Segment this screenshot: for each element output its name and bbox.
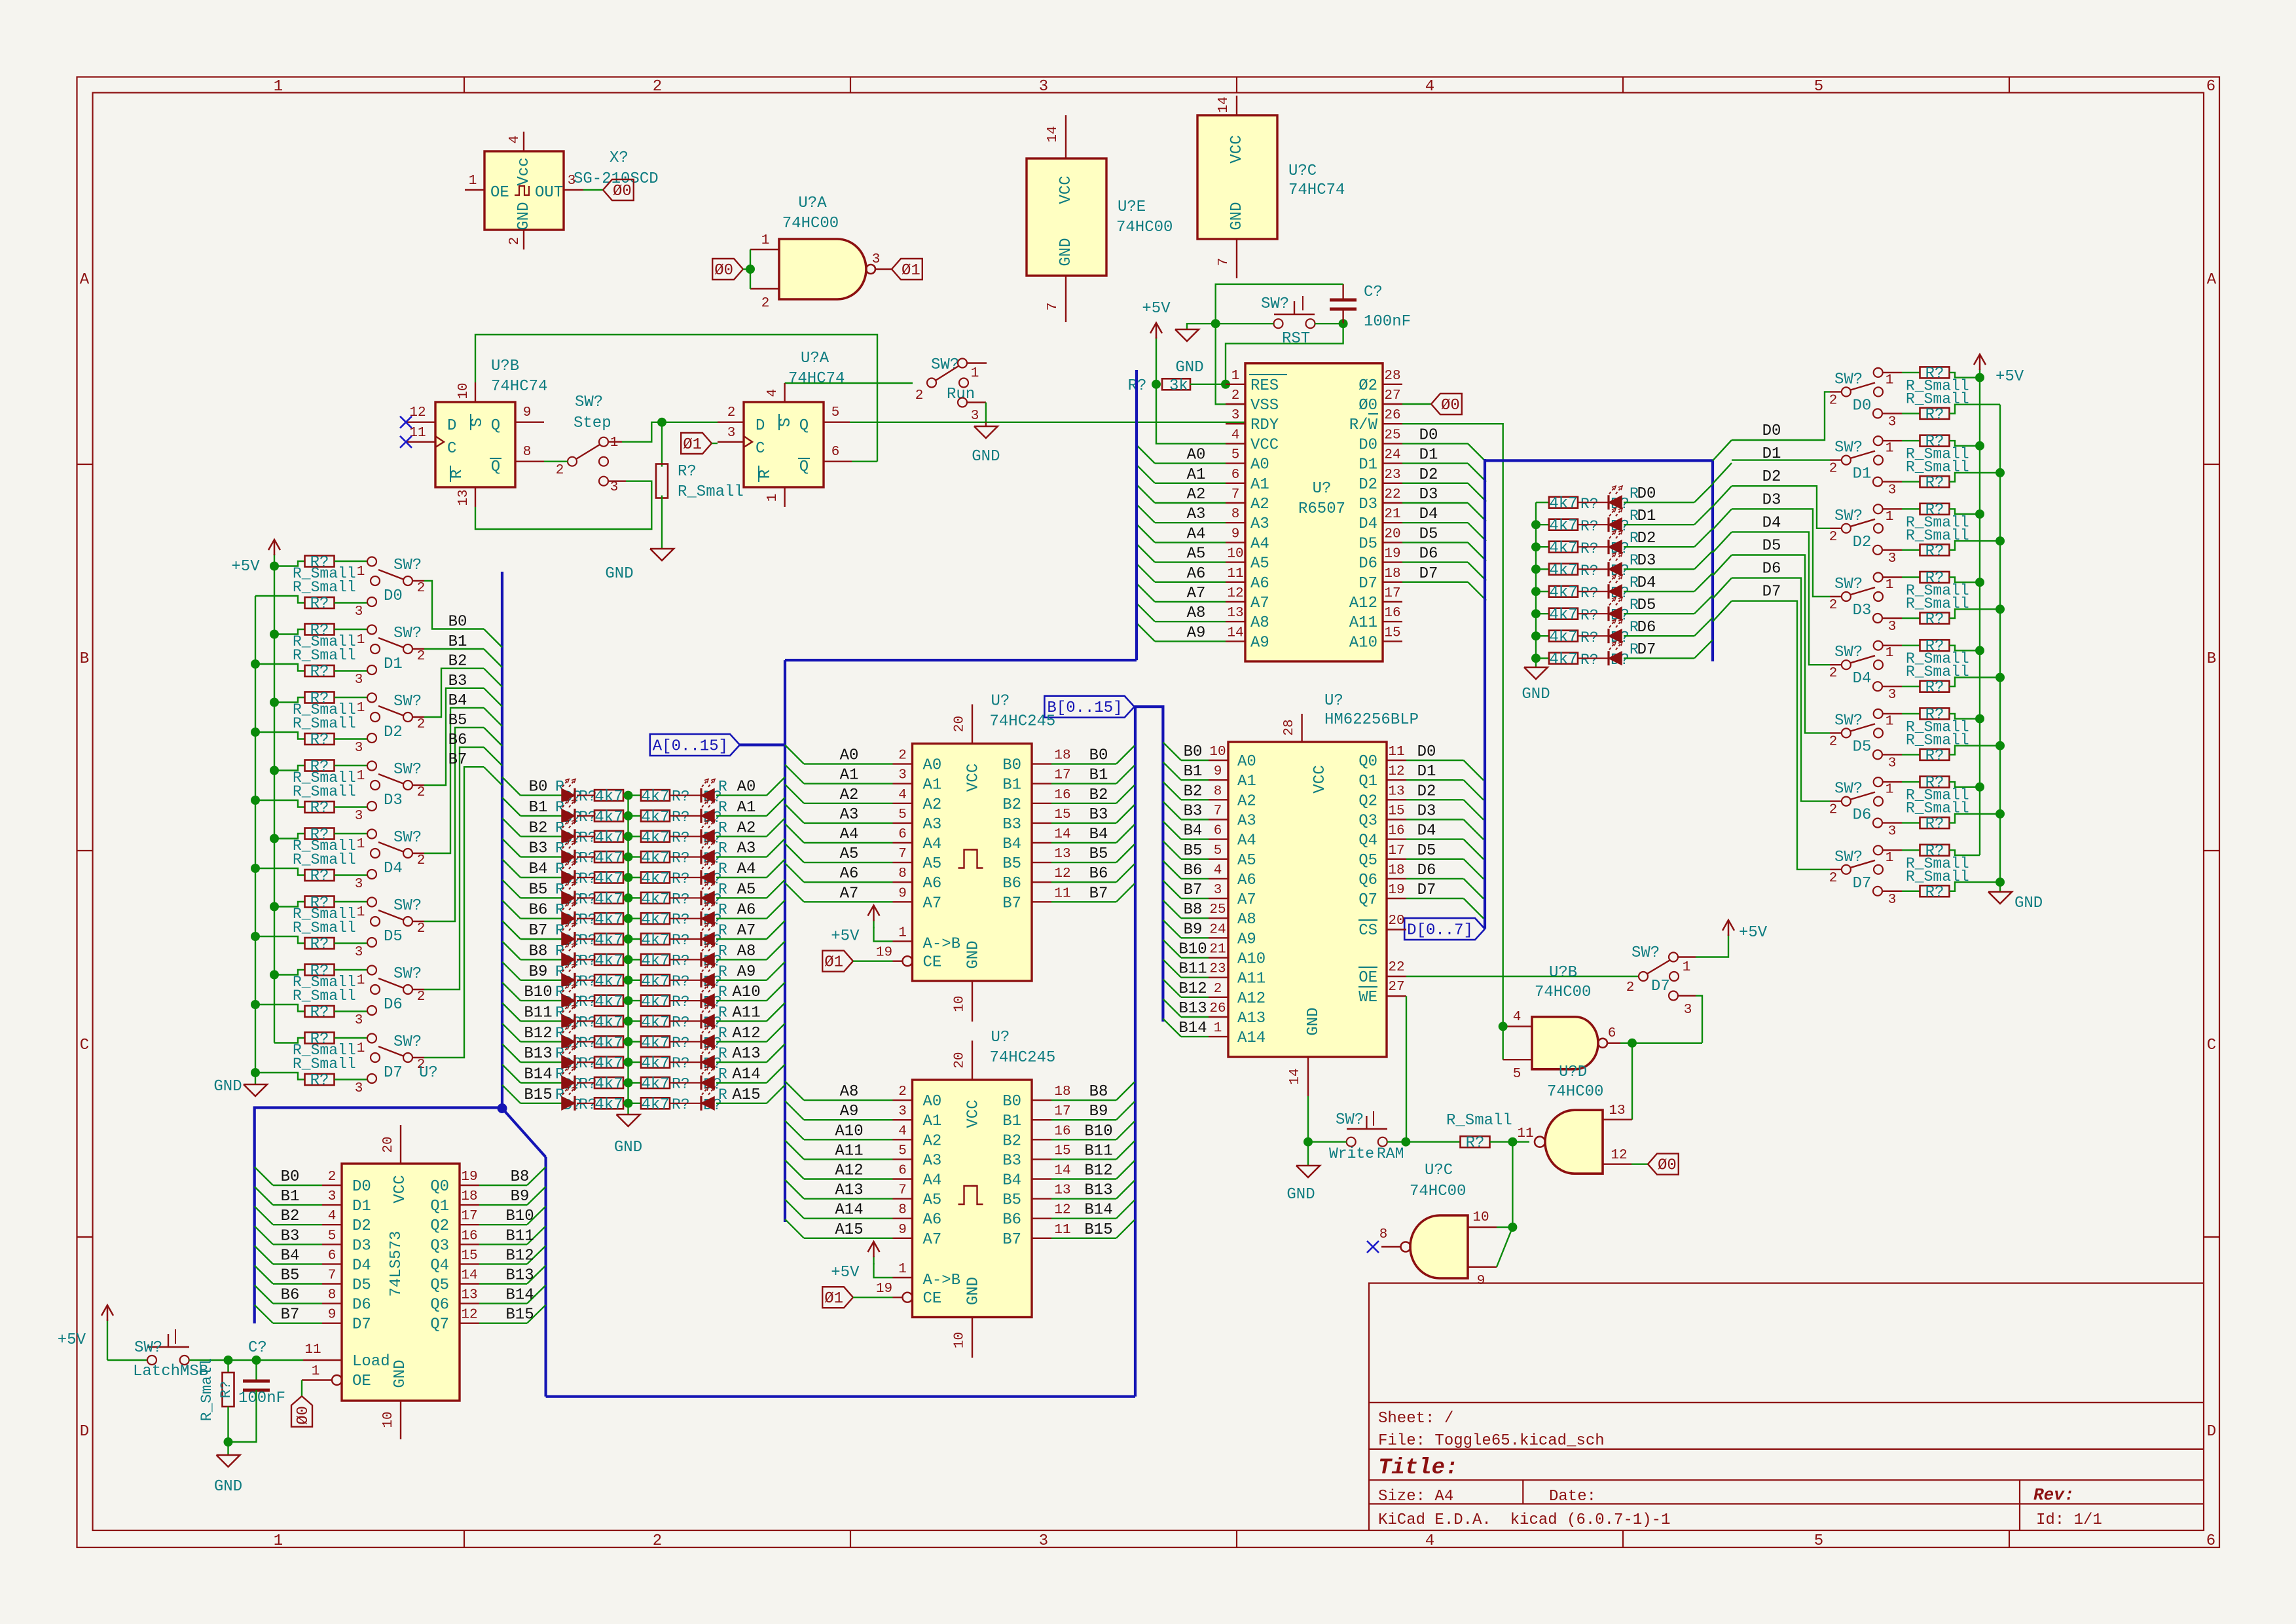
svg-text:A2: A2 [1250,496,1269,513]
svg-text:SW?: SW? [1834,644,1863,661]
74HC245 upper pin 16 B2 output [1032,803,1051,804]
svg-text:20: 20 [953,716,968,732]
svg-text:R?: R? [310,936,329,953]
wire feedback to Run switch common [877,382,913,384]
svg-text:R_Small: R_Small [293,783,356,800]
bus entry B1 left bank [484,649,502,667]
CPU pin 14 A9 [1226,640,1245,642]
svg-text:D2: D2 [1762,468,1781,486]
svg-text:R?: R? [1925,611,1944,629]
bus entry B0 left bank [484,629,502,648]
ladder row 5 resistor R? 4k7 left [577,897,594,898]
wire D2 from CPU pin 23 to D-bus [1402,483,1468,484]
CPU pin 15 A10 [1383,640,1402,642]
latch pin 16 Q3 output [460,1244,479,1245]
svg-text:D1: D1 [352,1198,371,1215]
svg-text:U?B: U?B [1549,964,1577,982]
74HC245 lower pin 3 A9 input [893,1119,913,1120]
right D3 resistor R? R_Small (pin1) [1883,576,1902,578]
CPU pin 9 A4 [1226,542,1245,543]
right D1 resistor R? R_Small (pin1) [1883,440,1902,441]
svg-text:74HC245: 74HC245 [990,713,1056,731]
svg-text:3: 3 [872,252,881,267]
svg-text:D3: D3 [1419,486,1438,504]
U?A-FF pin 2 D [718,422,744,423]
74HC245 lower wire+entry A8 [785,1081,804,1100]
svg-text:Q6: Q6 [430,1297,449,1314]
bus entry + wire A3 to CPU pin 8 [1137,504,1155,523]
svg-text:B7: B7 [1089,885,1108,902]
right D7 resistor R? R_Small (pin1) [1883,849,1902,851]
wire cap bottom to junction [1342,309,1343,323]
74HC245 upper pin 15 B3 output [1032,822,1051,824]
wire D5 from CPU pin 20 to D-bus [1402,542,1468,543]
svg-text:GND: GND [965,940,983,969]
svg-text:A5: A5 [1187,545,1206,563]
svg-text:B5: B5 [1002,1192,1021,1209]
latch pin 10 GND bottom [400,1401,401,1439]
svg-text:D5: D5 [1853,738,1872,756]
svg-text:6: 6 [2206,78,2215,96]
RAM pin 27 WE-bar [1387,995,1406,997]
svg-text:KiCad E.D.A. kicad (6.0.7-1)-: KiCad E.D.A. kicad (6.0.7-1)-1 [1378,1511,1670,1529]
RD5 row diode D? [1578,613,1609,614]
ladder row 5: bus entry B5 [502,879,520,898]
wire gnd junction to Write switch [1308,1141,1347,1142]
CPU pin 19 D6 [1383,561,1402,563]
svg-text:D3: D3 [1853,602,1872,619]
svg-text:R: R [718,881,727,898]
svg-text:Q7: Q7 [1358,891,1377,909]
svg-text:R?: R? [1925,706,1944,724]
svg-text:A10: A10 [1237,951,1266,969]
svg-text:3: 3 [1684,1003,1692,1018]
svg-text:A4: A4 [1237,832,1256,850]
svg-text:A8: A8 [737,942,756,960]
svg-text:2: 2 [653,78,662,96]
74HC245 lower pin 2 A8 input [893,1099,913,1101]
svg-text:A5: A5 [1237,852,1256,870]
RD5 wire and bus entry [1624,613,1694,614]
svg-text:B12: B12 [1084,1162,1112,1180]
svg-text:23: 23 [1209,962,1226,977]
svg-text:12: 12 [1611,1148,1627,1163]
svg-text:2: 2 [328,1170,337,1185]
bus label B[0..15] [1044,696,1134,718]
ladder row 3 diode D? right [670,856,701,857]
svg-text:B0: B0 [1002,1093,1021,1111]
ladder row 5 wire A side [716,897,767,898]
svg-text:R?: R? [672,1014,690,1031]
RAM pin 7 A3 address input [1209,819,1228,820]
right D7 resistor R? R_Small (pin3) [1882,891,1902,892]
svg-text:12: 12 [1388,764,1404,779]
svg-text:Q2: Q2 [1358,792,1377,810]
RAM pin 2 A12 address input [1209,997,1228,998]
ladder row 14 resistor R? 4k7 right [641,1077,670,1088]
svg-text:9: 9 [898,886,907,901]
svg-text:R?: R? [310,595,329,613]
svg-text:3: 3 [971,409,979,424]
74HC245 upper wire+entry B1 [1051,783,1116,784]
U?C74 pin 14 VCC stub [1236,96,1237,115]
svg-text:4k7: 4k7 [594,891,623,908]
svg-text:16: 16 [1384,606,1400,621]
wire U?C pin9 diagonal to input node [1497,1227,1512,1267]
svg-text:A8: A8 [840,1083,859,1101]
svg-text:Q2: Q2 [430,1217,449,1235]
ladder row 4 resistor R? 4k7 right [641,872,670,883]
svg-text:A2: A2 [840,786,859,804]
svg-text:19: 19 [1388,883,1404,898]
RAM pin 5 A5 address input [1209,858,1228,860]
svg-text:7: 7 [1214,804,1222,819]
svg-text:B13: B13 [524,1045,552,1063]
svg-text:4k7: 4k7 [641,932,669,950]
svg-text:Ø2: Ø2 [1358,377,1377,395]
RAM wire+entry D3 to D-bus [1406,819,1464,820]
junction U?B output [1628,1039,1637,1048]
svg-text:SW?: SW? [1336,1111,1364,1129]
svg-text:D0: D0 [1637,485,1656,503]
svg-text:8: 8 [1214,784,1222,799]
svg-text:2: 2 [417,921,426,936]
NAND gate U?A 74HC00 [779,239,866,299]
svg-text:A2: A2 [923,1132,942,1150]
switch SW? left bank D5 [335,901,368,902]
RAM pin 6 A4 address input [1209,838,1228,840]
ladder row 1 junction [623,815,642,817]
svg-text:1: 1 [1683,960,1691,975]
svg-text:1: 1 [274,1532,283,1550]
svg-text:1: 1 [357,564,365,580]
svg-text:A8: A8 [1187,604,1206,622]
74HC245 lower pin 20 VCC [972,1041,973,1080]
buffer U? 74HC245 upper body [913,744,1032,982]
ladder row 5 bus entry A5 [767,879,785,898]
svg-text:B12: B12 [524,1025,552,1043]
svg-text:4: 4 [898,788,907,803]
svg-text:3: 3 [568,174,576,189]
ladder row 8 wire A side [716,959,767,960]
bus B[0..15] RAM-side vertical [1135,707,1163,1022]
svg-text:A7: A7 [1237,891,1256,909]
svg-text:5: 5 [1214,843,1222,858]
svg-text:D7: D7 [1853,875,1872,893]
oscillator X1 SG-210SCD [484,151,564,230]
wire D6 from CPU pin 19 to D-bus [1402,561,1468,563]
74HC245 lower pin 7 A13 input [893,1198,913,1199]
svg-text:B5: B5 [1089,845,1108,863]
svg-text:U?C: U?C [1288,162,1317,180]
svg-text:A10: A10 [732,984,760,1001]
svg-text:A->B: A->B [923,936,961,953]
ladder row 4 wire B side [520,877,562,878]
junction write gnd [1303,1137,1313,1147]
wire +5V to 3k junction [1156,347,1157,384]
global label PHI1 at Step node [681,433,712,454]
junction Step D node [657,418,666,427]
svg-text:R: R [718,1066,727,1083]
svg-text:5: 5 [1513,1067,1522,1082]
ladder row 4 junction [623,877,642,878]
svg-text:B13: B13 [505,1267,534,1285]
ladder row 0: bus entry B0 [502,777,520,796]
RD2 wire and bus entry [1624,546,1694,547]
ladder row 8 bus entry A8 [767,941,785,959]
ladder row 0 diode D? right [670,794,701,796]
svg-text:4k7: 4k7 [641,993,669,1011]
latch pin 12 Q7 output [460,1322,479,1323]
svg-text:R?: R? [1580,585,1599,602]
NAND gate U?B 74HC00 (WE logic) [1532,1017,1598,1069]
svg-text:+5V: +5V [1995,368,2024,386]
svg-text:B15: B15 [1084,1221,1112,1239]
wire D5 bus to right switch common [1830,732,1842,733]
svg-text:12: 12 [461,1308,477,1323]
svg-text:R?: R? [1580,563,1599,580]
switch SW? left bank D6 [335,969,368,970]
svg-text:1: 1 [1214,1021,1222,1036]
svg-text:B1: B1 [1184,763,1203,781]
svg-text:R?: R? [1925,816,1944,834]
svg-text:28: 28 [1384,369,1400,384]
svg-text:D2: D2 [1419,466,1438,484]
RAM wire+entry B4 [1163,821,1181,840]
wire junction to U?A-FF pin 2 D [662,422,718,423]
svg-text:D: D [80,1423,89,1441]
U?B pin 11 C with no-connect [406,441,435,443]
svg-text:R6507: R6507 [1298,500,1345,518]
svg-text:D: D [756,417,765,435]
bus entry + wire A0 to CPU pin 5 [1137,445,1155,464]
ladder row 10 wire B side [520,1000,562,1001]
svg-text:A7: A7 [737,922,756,940]
oscillator X1 pin 4 Vcc [523,132,524,151]
svg-text:A9: A9 [840,1103,859,1120]
svg-text:14: 14 [461,1268,477,1283]
74HC245 upper pin 3 A1 input [893,783,913,784]
RAM wire+entry B7 [1163,881,1181,899]
U?B pin 13 R-bar bottom [475,487,476,507]
svg-text:GND: GND [392,1359,409,1388]
svg-text:2: 2 [653,1532,662,1550]
svg-text:Q: Q [491,417,500,435]
svg-text:4k7: 4k7 [594,829,623,847]
wire junction down to CPU VCC pin4 [1156,384,1245,444]
wire left D5 common to bus wire B5 [412,921,424,922]
RAM pin 20 CS-bar [1387,929,1406,930]
svg-text:15: 15 [1384,625,1400,640]
svg-text:4: 4 [898,1124,907,1139]
74HC245 lower wire+entry B8 [1051,1099,1116,1101]
right D4 resistor R? R_Small (pin1) [1883,645,1902,646]
svg-text:R_Small: R_Small [678,483,744,501]
svg-text:16: 16 [1054,1124,1070,1139]
ground symbol LatchMSB [227,1442,228,1455]
svg-text:B7: B7 [1002,1231,1021,1249]
svg-text:74HC00: 74HC00 [782,215,839,232]
svg-text:20: 20 [1388,913,1404,929]
RAM pin 11 Q0 data output [1387,760,1406,761]
svg-text:11: 11 [1054,1223,1070,1238]
middle ladder centre GND rail [627,796,629,1115]
ladder row 15 wire B side [520,1103,562,1104]
wire D1 bus to right switch common [1830,459,1842,460]
svg-text:Sheet: /: Sheet: / [1378,1410,1453,1428]
global label PHI1 at U?A output [892,259,922,280]
svg-text:R?: R? [672,932,690,949]
svg-text:3: 3 [328,1189,337,1204]
bus D[0..7] right vertical [1711,460,1714,661]
svg-text:Ø0: Ø0 [1658,1157,1677,1175]
U?B gate pin 4 input [1503,1025,1532,1027]
NAND U?A pin 1 [750,249,779,250]
svg-text:B2: B2 [448,653,467,671]
right D2 resistor R? R_Small (pin1) [1883,508,1902,509]
svg-text:Rev:: Rev: [2033,1485,2074,1505]
wire D3 bus to right switch common [1830,596,1842,597]
74HC245 lower pin 16 B10 output [1032,1139,1051,1140]
ladder row 6 resistor R? 4k7 left [577,918,594,919]
wire RAM WE down to write node [1406,996,1407,1142]
svg-text:GND: GND [614,1139,642,1156]
svg-text:A12: A12 [1237,990,1266,1008]
svg-text:R?: R? [310,800,329,817]
power +5V right bank rail [1979,369,1980,378]
latch pin 17 Q2 output [460,1224,479,1225]
svg-text:RDY: RDY [1250,416,1279,434]
svg-text:B4: B4 [281,1247,300,1264]
RAM wire+entry B1 [1163,762,1181,781]
svg-text:6: 6 [328,1248,337,1263]
svg-text:U?C: U?C [1425,1162,1453,1179]
svg-text:22: 22 [1388,960,1404,975]
svg-text:4: 4 [1231,428,1240,443]
74HC245 lower pin 10 GND [972,1318,973,1358]
wire RES junction up and right to RST/cap [1226,323,1343,384]
RAM pin 25 A8 address input [1209,917,1228,919]
svg-text:14: 14 [1227,625,1243,640]
resistor R? R_Small pulldown at Step [661,422,663,467]
wire D4 bus to right switch common [1830,664,1842,665]
U?B pin 10 S-bar top [475,382,476,402]
74HC245 upper wire+entry A2 [785,784,804,803]
svg-text:D1: D1 [1762,445,1781,463]
svg-text:16: 16 [1054,788,1070,803]
svg-text:R?: R? [1580,496,1599,513]
RD2 row diode D? [1578,546,1609,547]
bus entry B7 left bank [484,767,502,785]
svg-text:1: 1 [1886,373,1894,388]
svg-text:B7: B7 [281,1306,300,1324]
U?D input bubble pin 11 [1535,1137,1545,1147]
U?B gate pin 6 output wire [1607,1043,1620,1044]
ladder row 4 wire A side [716,877,767,878]
svg-text:Q6: Q6 [1358,872,1377,889]
svg-text:19: 19 [1384,547,1400,562]
svg-text:B1: B1 [281,1188,300,1206]
svg-text:4k7: 4k7 [641,1035,669,1052]
ladder row 3 resistor R? 4k7 left [577,856,594,857]
svg-text:D0: D0 [352,1178,371,1196]
ladder row 0 resistor R? 4k7 right [641,790,670,801]
svg-text:A12: A12 [835,1162,863,1180]
svg-text:9: 9 [328,1308,337,1323]
resistor R? R_Small LatchMSB pulldown [227,1360,228,1373]
svg-text:3: 3 [355,1081,363,1096]
svg-text:B0: B0 [1089,747,1108,765]
svg-text:2: 2 [1231,388,1240,403]
svg-text:1: 1 [312,1364,320,1379]
junction RES node [1221,380,1230,389]
svg-text:24: 24 [1209,922,1226,937]
svg-text:D7: D7 [352,1316,371,1334]
latch pin 11 Load [303,1359,342,1361]
svg-text:GND: GND [1305,1007,1322,1035]
svg-text:A0: A0 [737,779,756,796]
wire GND net down to CPU VSS pin2 [1216,323,1245,404]
capacitor C? 100nF [1330,299,1357,302]
ladder row 9 bus entry A9 [767,962,785,980]
74HC245 upper pin 14 B4 output [1032,842,1051,843]
left D2 resistor R? R_Small (pin3) [251,728,260,737]
svg-text:74HC74: 74HC74 [1288,181,1345,199]
RAM wire+entry B6 [1163,860,1181,879]
svg-text:1: 1 [357,701,365,716]
svg-text:U?B: U?B [491,358,519,375]
svg-text:21: 21 [1209,942,1226,957]
RAM pin 15 Q3 data output [1387,819,1406,820]
latch pin 20 VCC top [400,1125,401,1164]
svg-text:1: 1 [274,78,283,96]
svg-text:C: C [756,440,765,458]
svg-text:A6: A6 [1187,565,1206,583]
ladder row 4: bus entry B4 [502,859,520,877]
svg-text:Q: Q [491,458,500,476]
wire D7 bus to right switch common [1830,869,1842,870]
svg-text:B15: B15 [505,1306,534,1324]
svg-text:74HC00: 74HC00 [1547,1083,1603,1101]
wire Step throw3 to R-bar loop [608,481,626,482]
right D4 resistor R? R_Small (pin3) [1882,686,1902,687]
svg-text:D: D [2207,1423,2216,1441]
svg-text:R_Small: R_Small [293,987,356,1005]
latch wire+entry B9 [479,1204,527,1206]
svg-text:4: 4 [1513,1010,1522,1025]
RAM wire+entry B8 [1163,900,1181,919]
svg-text:4k7: 4k7 [1549,606,1577,624]
svg-text:A11: A11 [1349,614,1377,632]
svg-text:1: 1 [1886,714,1894,729]
74HC245 upper pin 13 B5 output [1032,862,1051,863]
wire D1 from CPU pin 24 to D-bus [1402,462,1468,464]
ladder row 11 wire B side [520,1020,562,1022]
CPU pin 17 A12 [1383,601,1402,602]
ladder row 8 junction [623,959,642,960]
svg-text:VCC: VCC [1228,135,1246,163]
ladder row 12 wire A side [716,1041,767,1043]
svg-text:GND: GND [1522,686,1550,703]
svg-text:D0: D0 [384,587,403,605]
svg-text:B14: B14 [505,1287,534,1304]
bus entry B3 left bank [484,688,502,707]
svg-text:A7: A7 [840,885,859,902]
bus entry + wire A2 to CPU pin 7 [1137,485,1155,503]
svg-text:1: 1 [1886,783,1894,798]
svg-text:1: 1 [1886,851,1894,866]
svg-text:9: 9 [898,1223,907,1238]
